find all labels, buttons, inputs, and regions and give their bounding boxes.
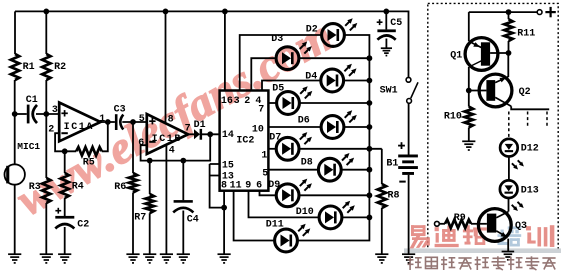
wire C4 top	[182, 161, 184, 201]
svg-text:D5: D5	[272, 84, 284, 95]
svg-text:R9: R9	[454, 213, 466, 224]
node bus/D8 junction	[367, 167, 373, 173]
capacitor C3	[115, 114, 123, 130]
wire Q2 base	[469, 90, 487, 92]
wire D9 cathode	[299, 194, 369, 196]
svg-text:D9: D9	[268, 180, 280, 191]
wire IC2 pin4 to D4	[262, 81, 321, 91]
wire IC2 pin7 to D5	[268, 102, 276, 104]
wire D6 cathode	[344, 126, 370, 128]
svg-text:5: 5	[262, 169, 268, 180]
svg-text:MIC1: MIC1	[17, 141, 40, 152]
ground R6	[126, 254, 139, 263]
svg-text:D10: D10	[296, 207, 314, 218]
ground C2	[58, 254, 71, 263]
svg-text:2: 2	[244, 96, 250, 107]
svg-text:D4: D4	[305, 72, 317, 83]
resistor R11	[504, 19, 512, 41]
capacitor C2	[55, 216, 74, 229]
node R1/C1/MIC1 junction	[12, 111, 18, 117]
logo glyph di	[435, 225, 459, 247]
svg-text:D13: D13	[521, 186, 539, 197]
diode D1	[194, 129, 202, 140]
ground Q3	[502, 252, 515, 260]
wire D10 cathode	[342, 216, 370, 218]
svg-text:B1: B1	[386, 159, 398, 170]
capacitor C4	[173, 200, 193, 212]
wire R8 to ground	[381, 208, 383, 254]
wire R7 top	[149, 161, 151, 194]
resistor R4	[60, 173, 68, 198]
svg-text:R3: R3	[29, 182, 41, 193]
svg-text:D1: D1	[194, 120, 206, 131]
wire Q1 collector down	[468, 67, 470, 91]
wire IC2 pin8 to ground	[223, 191, 225, 255]
wire LED cathode bus	[297, 35, 369, 241]
node bus/D7 junction	[367, 146, 373, 152]
svg-text:8: 8	[221, 181, 227, 192]
node D1/IC2-14/feedback junction	[207, 131, 213, 137]
ground IC2 pin8	[218, 254, 231, 263]
svg-text:3: 3	[234, 96, 240, 107]
wire C5 top	[385, 11, 387, 29]
wire D12 to D13	[508, 157, 510, 181]
gray band	[404, 248, 561, 253]
svg-text:2: 2	[48, 125, 54, 136]
logo glyph yi	[410, 225, 430, 248]
dashed chain drop 3	[546, 112, 548, 128]
terminal R9 input	[435, 221, 440, 226]
C5 plus sign	[377, 19, 383, 25]
node R2/R3/IC1A+ junction	[43, 111, 49, 117]
terminal plus sign	[545, 7, 555, 17]
svg-text:R7: R7	[134, 213, 146, 224]
LED D3	[276, 42, 312, 70]
node bus/D10 junction	[367, 215, 373, 221]
svg-text:3: 3	[52, 105, 58, 116]
wire R2 top	[45, 11, 47, 54]
wire R10 to ground	[468, 128, 470, 142]
ground R8	[375, 254, 388, 263]
svg-text:Q3: Q3	[515, 221, 527, 232]
wire C5 to ground	[385, 39, 387, 49]
wire IC2 pin6 to D9	[260, 191, 277, 196]
svg-text:R11: R11	[517, 28, 535, 39]
transistor Q1	[465, 38, 498, 71]
svg-text:IC1B: IC1B	[152, 134, 182, 145]
LED D5	[277, 86, 313, 114]
LED D10	[319, 201, 355, 229]
switch SW1 top contact	[406, 77, 411, 82]
svg-text:1: 1	[261, 150, 267, 161]
LED D13	[500, 180, 524, 211]
ground R3	[40, 254, 53, 263]
svg-text:1: 1	[99, 114, 105, 125]
svg-text:D6: D6	[298, 116, 310, 127]
wire C3 to IC1B pin5	[122, 121, 147, 123]
LED D6	[321, 110, 357, 138]
resistor R7	[146, 194, 154, 213]
node bus/D3 junction	[367, 55, 373, 61]
wire R4 to C2	[64, 198, 66, 216]
resistor R5	[76, 147, 102, 155]
LED D7	[276, 132, 312, 160]
wire C1 to IC1A pin3	[36, 113, 59, 115]
LED D12	[500, 139, 524, 170]
ground MIC1	[8, 254, 21, 263]
logo glyph xun	[526, 225, 554, 247]
node Q1col/Q2base/R10 junction	[466, 88, 472, 94]
logo glyph tuo	[463, 225, 487, 245]
wire IC1B output	[188, 133, 194, 135]
svg-text:R4: R4	[72, 182, 84, 193]
node rail/IC1B pin8 junction	[163, 9, 169, 15]
svg-text:Q1: Q1	[450, 50, 462, 61]
wire R3 top	[45, 114, 47, 178]
resistor R8	[378, 184, 386, 208]
dashed enclosure box	[428, 3, 558, 250]
wire R6 top	[132, 122, 134, 173]
wire IC1B pin6 loop	[141, 134, 211, 160]
wire IC1A pin2 loop	[55, 133, 76, 151]
svg-text:D7: D7	[269, 133, 281, 144]
wire R1 bottom to MIC1	[14, 80, 16, 164]
wire C1 left	[15, 113, 27, 115]
ground R10	[462, 141, 475, 150]
dashed chain drop 2	[527, 112, 529, 128]
svg-text:R8: R8	[388, 191, 400, 202]
wire D8 cathode	[341, 169, 370, 171]
resistor R6	[129, 173, 137, 192]
svg-text:C3: C3	[114, 105, 126, 116]
node bus/D6 junction	[367, 124, 373, 130]
wire MIC1 to ground	[14, 185, 16, 254]
wire R2 bottom	[45, 80, 47, 114]
dashed chain drop 1	[508, 112, 510, 139]
svg-text:4: 4	[169, 146, 175, 157]
wire IC2 pin2 to D3	[251, 58, 276, 90]
node R11/Q1base/Q2 junction	[506, 50, 512, 56]
svg-text:11: 11	[230, 181, 242, 192]
ground IC1B pin4	[160, 254, 173, 263]
wire D13 to Q3	[508, 198, 510, 211]
LED D11	[275, 224, 311, 252]
resistor R9	[445, 220, 471, 228]
switch SW1 bottom contact	[407, 99, 412, 104]
svg-text:R2: R2	[54, 62, 66, 73]
node R7 junction	[147, 158, 153, 164]
svg-text:7: 7	[258, 104, 264, 115]
node C4 junction	[180, 158, 186, 164]
node C3/R6/IC1B+ junction	[130, 119, 136, 125]
resistor R1	[11, 54, 19, 80]
IC1A minus input sign	[61, 132, 67, 134]
wire Q2 emitter rail	[511, 106, 549, 109]
svg-text:D11: D11	[266, 220, 284, 231]
wire D7 cathode / R8 branch	[299, 148, 382, 150]
switch SW1 lever	[411, 82, 418, 98]
capacitor C1	[27, 105, 37, 124]
svg-text:C2: C2	[77, 220, 89, 231]
wire D5 cathode	[299, 102, 369, 104]
svg-text:D3: D3	[271, 34, 283, 45]
wire R9 to Q3 base	[471, 223, 487, 225]
LED D4	[321, 64, 357, 92]
svg-text:IC1A: IC1A	[64, 122, 94, 133]
wire D1 to IC2 pin14	[202, 133, 220, 135]
op-amp IC1A	[59, 103, 100, 142]
wire R5 to IC1A output	[102, 122, 108, 151]
node rail/R2 junction	[43, 9, 49, 15]
wire box V+ top	[469, 11, 537, 13]
ground C5	[381, 48, 392, 55]
svg-text:8: 8	[168, 115, 174, 126]
wire IC2 pins15+13 tie	[210, 164, 225, 208]
wire C2 to ground	[64, 227, 66, 254]
wire Q1 base	[490, 52, 508, 54]
svg-text:R5: R5	[83, 158, 95, 169]
wire R1 top	[14, 11, 16, 54]
wire IC1B pin4 to ground	[165, 144, 167, 254]
node bus/D4 junction	[367, 78, 373, 84]
wire IC2 pin3 to D2	[240, 35, 322, 91]
node IC1A out/R5/C3 junction	[105, 119, 111, 125]
node bus/D5 junction	[367, 100, 373, 106]
IC U2 body (IC2)	[220, 91, 269, 191]
svg-text:SW1: SW1	[380, 86, 398, 97]
terminal + output	[537, 10, 542, 15]
wire V+ top rail	[15, 11, 409, 77]
C2 plus sign	[55, 208, 61, 214]
wire R3 to ground	[45, 203, 47, 254]
node rail/R11 junction	[506, 9, 512, 15]
wire R11 top	[508, 12, 510, 19]
op-amp IC1B	[147, 114, 188, 154]
wire B1 to ground	[408, 175, 410, 254]
svg-text:C1: C1	[26, 95, 38, 106]
node pin8/15/13 ground junction	[221, 205, 227, 211]
wire R4 top	[64, 151, 66, 173]
ground B1	[402, 254, 415, 263]
resistor R3	[42, 178, 50, 203]
LED D8	[318, 153, 354, 181]
ground R7	[143, 254, 156, 263]
wire D3 cathode	[299, 57, 370, 59]
wire IC1B V+ from rail	[165, 11, 167, 123]
ground C4	[177, 254, 190, 263]
capacitor C5	[377, 29, 395, 39]
svg-text:7: 7	[185, 124, 191, 135]
svg-text:D12: D12	[521, 143, 539, 154]
svg-text:R6: R6	[114, 182, 126, 193]
svg-text:10: 10	[252, 124, 264, 135]
svg-text:5: 5	[139, 114, 145, 125]
wire IC2 pin9 to D10	[249, 191, 320, 218]
svg-text:6: 6	[256, 181, 262, 192]
battery B1	[398, 155, 418, 175]
wire R6 to ground	[132, 193, 134, 255]
svg-text:16: 16	[221, 96, 233, 107]
node bus/D9 junction	[367, 192, 373, 198]
B1 plus sign	[398, 142, 405, 149]
wire SW1 to B1	[408, 103, 410, 154]
node R5/R4 junction	[62, 148, 68, 154]
wire D4 cathode	[344, 80, 370, 82]
transistor Q3	[478, 209, 511, 242]
IC1A plus input sign	[61, 110, 67, 116]
wire R11 to Q1 base node	[508, 41, 510, 53]
logo glyph pei	[498, 226, 522, 246]
svg-text:D2: D2	[306, 25, 318, 36]
microphone MIC1	[5, 164, 25, 184]
svg-text:R1: R1	[23, 62, 35, 73]
resistor R2	[42, 54, 50, 80]
svg-text:R10: R10	[444, 112, 462, 123]
wire R9 left	[439, 223, 445, 225]
wire Q2 collector up	[507, 53, 509, 77]
svg-text:9: 9	[245, 181, 251, 192]
svg-text:D8: D8	[301, 158, 313, 169]
transistor Q2	[479, 74, 512, 107]
B1 minus sign	[399, 181, 405, 183]
svg-text:C4: C4	[187, 215, 199, 226]
wire IC2 pin5 to D8	[268, 169, 318, 171]
wire C4 to ground	[182, 211, 184, 255]
svg-text:15: 15	[222, 161, 234, 172]
node rail/C5 junction	[383, 9, 389, 15]
svg-text:IC2: IC2	[236, 135, 254, 146]
wire IC2 pin16 to rail	[224, 11, 226, 90]
wire R10 top	[468, 91, 470, 107]
IC1B minus input sign	[149, 141, 155, 143]
svg-text:Q2: Q2	[519, 87, 531, 98]
svg-text:14: 14	[222, 130, 234, 141]
wire Q1 emitter	[468, 12, 470, 41]
wire IC2 pin1 to D7	[268, 148, 276, 150]
LED D9	[276, 179, 312, 207]
IC1B plus input sign	[149, 118, 155, 124]
wire IC2 pin10 to D6	[268, 126, 321, 128]
wire IC1A output	[100, 121, 115, 123]
resistor R10	[465, 107, 473, 128]
svg-text:C5: C5	[390, 18, 402, 29]
wire IC2 pin11 to D11	[234, 191, 275, 241]
node rail/IC2-16 junction	[222, 9, 228, 15]
wire R7 to ground	[149, 213, 151, 254]
bottom caption text	[408, 256, 556, 270]
LED D2	[322, 18, 358, 46]
wire Q3 emitter to ground	[507, 239, 509, 252]
wire R8 top	[381, 149, 383, 184]
